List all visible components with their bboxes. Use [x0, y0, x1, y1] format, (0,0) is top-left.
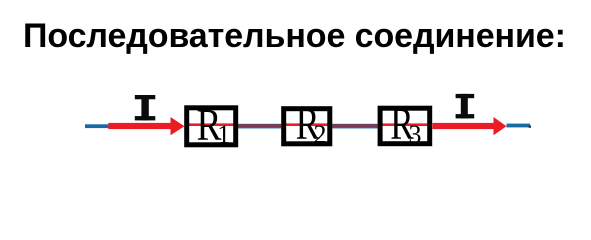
resistor R3 box fill [380, 108, 430, 144]
resistor R1 box fill [187, 108, 236, 145]
current label I left [135, 95, 156, 120]
svg-text:3: 3 [409, 120, 422, 149]
resistor R2 box border [284, 109, 330, 144]
red current line through R1 [188, 123, 235, 126]
red current line through R3 [382, 123, 432, 126]
current arrow right head [494, 117, 507, 135]
red current line through R2 [285, 123, 329, 126]
wire left blue segment [85, 124, 109, 128]
current label I right [456, 94, 475, 119]
red-over-blue current line R1-R2 [238, 125, 281, 127]
resistor R3 box border [380, 108, 430, 144]
resistor R2 box fill [284, 109, 330, 144]
wire right blue segment [507, 124, 531, 128]
wire blue segment R1-R2 [238, 124, 281, 129]
resistor R1 box border [187, 108, 236, 145]
current arrow left shaft [108, 123, 171, 129]
wire blue segment R2-R3 [332, 124, 377, 129]
title: Последовательное соединение: [23, 17, 566, 56]
current arrow left head [171, 117, 185, 135]
svg-text:1: 1 [217, 120, 230, 149]
red-over-blue current line R2-R3 [332, 125, 377, 127]
current arrow right shaft [432, 123, 493, 129]
wire end node dot [529, 125, 531, 127]
svg-text:2: 2 [314, 120, 327, 149]
